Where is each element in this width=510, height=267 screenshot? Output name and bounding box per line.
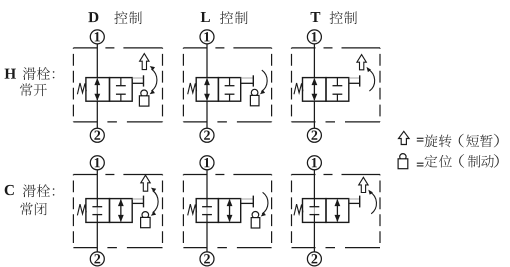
valve C-D wire spool to port2: [96, 222, 98, 252]
valve C-L envelope (dashed box): [183, 175, 271, 248]
valve C-T position box left: [303, 199, 327, 223]
valve D-H wire spool to port2: [96, 101, 98, 128]
valve L-H open flow arrow: [204, 78, 210, 101]
legend rotate arrow icon: [399, 131, 410, 144]
valve C-T rotate curved arrow: [368, 190, 376, 214]
valve C-D port 2 (circle 2): [90, 252, 104, 266]
valve C-L position box right: [218, 199, 240, 223]
valve C-L position box left: [196, 199, 218, 223]
valve L-H return spring: [188, 83, 197, 94]
valve T-H open flow arrow: [312, 78, 318, 101]
valve D-H open flow arrow: [94, 78, 100, 101]
row header H label 滑栓：: [23, 67, 55, 80]
valve T-H position box right: [326, 78, 349, 102]
valve L-H actuator stem: [241, 75, 254, 86]
column header letter L: [201, 12, 210, 22]
legend equals sign 2: [417, 163, 424, 166]
legend equals sign 1: [417, 138, 424, 141]
valve C-L hidden path (gray): [206, 207, 208, 215]
valve T-H envelope (dashed box): [292, 48, 381, 122]
valve D-H actuator stem: [132, 75, 143, 86]
valve D-H position box left: [86, 78, 110, 102]
valve C-D position box right: [110, 199, 133, 223]
valve L-H port 2 (circle 2): [200, 128, 214, 142]
valve D-H return spring: [77, 83, 86, 94]
column header letter T: [311, 12, 321, 22]
valve T-H port 2 (circle 2): [307, 128, 321, 142]
valve L-H position box right: [218, 78, 240, 102]
row header C label 滑栓：: [23, 184, 55, 197]
valve C-T actuator stem: [349, 196, 360, 208]
valve C-D port 1 (circle 1): [90, 156, 104, 170]
valve C-D open flow arrow: [118, 199, 124, 222]
valve L-H wire spool to port2: [206, 101, 208, 128]
column header T label 控制: [330, 11, 357, 24]
valve T-H port 1 (circle 1): [307, 30, 321, 44]
column header D label 控制: [114, 11, 142, 24]
valve C-T position box right: [326, 199, 349, 223]
valve D-H wire port1 to spool: [96, 44, 98, 78]
valve D-H port 2 (circle 2): [90, 128, 104, 142]
valve D-H port 1 (circle 1): [90, 30, 104, 44]
valve L-H blocked ports: [225, 78, 235, 102]
valve T-H blocked ports: [333, 78, 343, 102]
valve L-H port 1 (circle 1): [200, 30, 214, 44]
valve L-H position box left: [196, 78, 218, 102]
valve C-T hidden path (gray): [313, 207, 315, 215]
valve C-T port 1 (circle 1): [307, 156, 321, 170]
valve L-H detent curved arrow: [260, 70, 267, 94]
valve T-H wire spool to port2: [313, 101, 315, 128]
valve D-H blocked ports: [116, 78, 126, 102]
row header C label 常闭: [20, 202, 47, 215]
valve T-H wire port1 to spool: [313, 44, 315, 78]
valve C-D position box left: [86, 199, 110, 223]
valve C-T wire spool to port2: [313, 222, 315, 252]
valve C-D blocked ports: [92, 199, 102, 223]
valve C-T envelope (dashed box): [292, 175, 381, 248]
valve T-H actuator stem: [349, 75, 360, 86]
valve C-T port 2 (circle 2): [307, 252, 321, 266]
valve C-L return spring: [188, 204, 197, 215]
row header H label 常开: [20, 83, 47, 96]
valve C-D actuator stem: [132, 196, 143, 208]
valve C-L detent padlock: [251, 212, 260, 229]
valve C-L open flow arrow: [227, 199, 233, 222]
legend detent padlock icon: [398, 154, 408, 169]
valve C-D hidden path (gray): [96, 207, 98, 215]
valve C-D rotate arrow (momentary): [141, 175, 150, 191]
column header letter D: [88, 12, 98, 22]
valve C-D wire port1 to spool: [96, 170, 98, 199]
valve C-L actuator stem: [241, 196, 254, 208]
valve C-L blocked ports: [202, 199, 212, 223]
valve T-H rotate curved arrow: [367, 67, 375, 91]
valve C-T return spring: [294, 204, 303, 215]
valve C-T blocked ports: [310, 199, 320, 223]
legend label 定位（制动）: [425, 154, 499, 168]
valve C-T open flow arrow: [335, 199, 341, 222]
valve L-H envelope (dashed box): [183, 48, 271, 122]
valve L-H wire port1 to spool: [206, 44, 208, 78]
valve D-H rotate-detent curved arrow: [150, 66, 157, 94]
valve C-L wire spool to port2: [206, 222, 208, 252]
legend label 旋转（短暂）: [424, 134, 498, 148]
row header letter H: [5, 69, 16, 79]
valve D-H envelope (dashed box): [73, 48, 162, 122]
valve C-T rotate arrow (momentary): [359, 177, 368, 192]
valve C-D detent padlock: [141, 212, 151, 228]
column header L label 控制: [220, 11, 248, 24]
valve D-H position box right: [110, 78, 133, 102]
valve C-T wire port1 to spool: [313, 170, 315, 199]
valve D-H rotate arrow (momentary): [140, 54, 149, 70]
row header letter C: [5, 185, 14, 195]
valve C-D envelope (dashed box): [73, 175, 162, 248]
valve L-H detent padlock: [250, 89, 259, 106]
valve C-D rotate-detent curved arrow: [151, 188, 158, 216]
valve C-D return spring: [77, 204, 86, 215]
valve C-L detent curved arrow: [261, 192, 268, 216]
valve T-H return spring: [294, 83, 303, 94]
valve D-H detent padlock: [139, 90, 149, 106]
valve T-H position box left: [303, 78, 327, 102]
valve C-L port 2 (circle 2): [200, 252, 214, 266]
valve C-L port 1 (circle 1): [200, 156, 214, 170]
valve C-L wire port1 to spool: [206, 170, 208, 199]
valve T-H rotate arrow (momentary): [357, 55, 366, 70]
